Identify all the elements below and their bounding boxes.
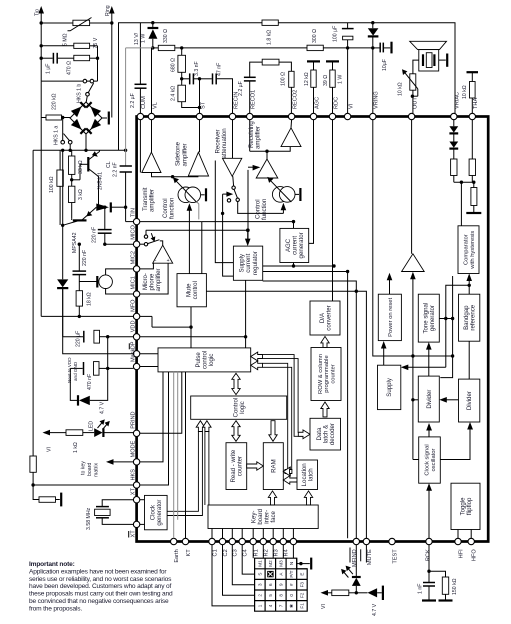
svg-text:M1: M1 xyxy=(258,560,263,567)
svg-text:MIC2: MIC2 xyxy=(130,251,136,264)
svg-text:10µF: 10µF xyxy=(382,59,388,71)
svg-text:RECO1: RECO1 xyxy=(251,90,257,109)
wire IC top rail xyxy=(119,21,456,150)
svg-text:amplifier: amplifier xyxy=(149,189,156,212)
svg-text:with hysteresis: with hysteresis xyxy=(470,231,476,270)
svg-text:2N5401: 2N5401 xyxy=(98,172,104,190)
block row column counter xyxy=(311,348,341,401)
wire Tip-Ring top xyxy=(40,21,114,117)
op-amp receiver attenuation xyxy=(214,120,241,177)
arrow readwrite-RAM xyxy=(247,462,264,470)
block divider 2 xyxy=(459,379,480,422)
svg-text:Comparator: Comparator xyxy=(464,234,470,265)
svg-text:reference: reference xyxy=(470,304,477,330)
wire attenuator1 input xyxy=(187,202,199,231)
wire tone right node xyxy=(439,276,454,378)
wire mute outputs xyxy=(152,290,366,539)
svg-text:HKS 1 a: HKS 1 a xyxy=(54,126,60,145)
switch MICO xyxy=(140,230,160,246)
capacitor 47 nF xyxy=(200,63,233,114)
wire osc feed xyxy=(411,356,419,460)
svg-text:12 kΩ: 12 kΩ xyxy=(304,72,310,86)
resistor 150 kOhm xyxy=(429,571,458,600)
svg-text:N: N xyxy=(289,562,294,565)
svg-text:generator: generator xyxy=(298,232,305,258)
wire ST node xyxy=(198,77,201,113)
wire divider node xyxy=(454,181,476,184)
wire base rail y150 xyxy=(33,81,127,456)
svg-text:Divider: Divider xyxy=(426,390,433,409)
svg-text:R4: R4 xyxy=(284,549,290,556)
wire mute row y230 xyxy=(146,229,251,274)
arrow row-DA xyxy=(321,336,329,347)
bus pulse logic down xyxy=(140,372,186,538)
svg-text:DP: DP xyxy=(130,341,136,349)
svg-text:HKS 1 b: HKS 1 b xyxy=(76,84,82,103)
svg-text:generator: generator xyxy=(156,500,163,526)
svg-text:VL: VL xyxy=(152,102,158,109)
resistor 100 kOhm xyxy=(49,150,63,225)
switch receiver mute xyxy=(223,176,284,213)
block D/A converter xyxy=(310,301,340,335)
svg-text:1 W: 1 W xyxy=(338,75,344,84)
svg-text:330 Ω: 330 Ω xyxy=(163,29,169,43)
svg-text:AGC: AGC xyxy=(314,97,320,109)
ground xyxy=(466,212,481,214)
svg-text:2.2 µF: 2.2 µF xyxy=(130,93,136,108)
LED (MFIND) xyxy=(341,545,361,595)
wire MODE to key board matrix xyxy=(81,459,134,477)
svg-text:RDC: RDC xyxy=(333,97,339,109)
bus pulse to RAM right xyxy=(251,361,292,476)
svg-text:CUM: CUM xyxy=(141,96,147,109)
svg-text:+: + xyxy=(167,258,170,264)
block bandgap reference xyxy=(459,294,480,341)
svg-text:amplifier: amplifier xyxy=(255,126,262,149)
wire MUTE stub xyxy=(365,545,367,563)
svg-text:TIN: TIN xyxy=(130,208,136,217)
svg-text:be convinced that no negative: be convinced that no negative consequenc… xyxy=(29,598,169,605)
block RAM xyxy=(263,443,283,490)
IC bottom edge pins xyxy=(171,538,478,567)
wire stageB control arrow xyxy=(246,165,260,240)
diode VRIAC 1 xyxy=(449,120,458,142)
svg-text:220 nF: 220 nF xyxy=(91,227,97,243)
svg-text:logic: logic xyxy=(208,354,215,367)
capacitor 100 uF xyxy=(333,23,354,48)
svg-text:3.58 MHz: 3.58 MHz xyxy=(86,507,92,530)
svg-text:MPSA42: MPSA42 xyxy=(72,232,78,253)
arrow control-RAM down xyxy=(269,421,277,442)
resistor 470 Ohm xyxy=(66,55,99,75)
wire keypad common terminal xyxy=(297,558,312,570)
IC top edge pins xyxy=(137,90,479,120)
svg-text:MFIND: MFIND xyxy=(352,549,358,567)
svg-text:#: # xyxy=(289,583,294,586)
svg-text:amplifier: amplifier xyxy=(155,268,162,291)
arrow osc to divider1 xyxy=(426,423,432,437)
svg-text:RAM: RAM xyxy=(270,459,277,473)
diode zener 4.7 V xyxy=(70,368,107,414)
svg-text:1 µF: 1 µF xyxy=(45,64,51,74)
svg-text:100 µF: 100 µF xyxy=(333,26,339,42)
op-amp transmit amplifier xyxy=(140,120,161,212)
wire opamp input xyxy=(410,272,416,356)
svg-text:9: 9 xyxy=(279,583,284,586)
capacitor 2.2 uF (CUM) xyxy=(130,23,146,114)
svg-text:decoder: decoder xyxy=(329,423,336,445)
svg-text:Next to VDD: Next to VDD xyxy=(67,357,72,383)
svg-text:from the proposals.: from the proposals. xyxy=(29,605,82,612)
svg-text:5 MΩ: 5 MΩ xyxy=(62,33,68,46)
svg-text:2.2 nF: 2.2 nF xyxy=(112,162,118,177)
svg-text:1.8 kΩ: 1.8 kΩ xyxy=(267,30,273,45)
svg-text:XT: XT xyxy=(130,487,136,495)
block mute control xyxy=(177,274,206,307)
svg-text:M3: M3 xyxy=(279,560,284,567)
varistor 5 MOhm 75 V xyxy=(41,18,112,49)
arrow control-readwrite double xyxy=(232,421,240,442)
svg-text:7: 7 xyxy=(279,604,284,607)
arrow keyboard-RAM xyxy=(268,491,276,505)
block supply xyxy=(378,365,401,409)
resistor (VRIAC chain) xyxy=(451,159,457,182)
svg-text:3.3 nF: 3.3 nF xyxy=(194,61,200,76)
IC left edge pins xyxy=(129,208,140,537)
svg-text:1 nF: 1 nF xyxy=(418,584,424,594)
svg-text:these proposals must carry out: these proposals must carry out their own… xyxy=(29,591,173,598)
resistor 3 kOhm xyxy=(69,186,85,219)
wire R column drops xyxy=(253,545,293,559)
svg-text:2.4 kΩ: 2.4 kΩ xyxy=(170,86,176,101)
IC outline xyxy=(137,117,489,542)
svg-text:470 nF: 470 nF xyxy=(87,374,93,390)
svg-text:RECO2: RECO2 xyxy=(292,90,298,109)
resistor 680 Ohm xyxy=(170,48,185,79)
wire MIC2 input xyxy=(140,263,154,269)
transistor 2N5401 xyxy=(72,150,104,207)
block data latch decoder xyxy=(310,418,341,450)
switch HKS 1 a xyxy=(54,118,72,151)
svg-text:F2: F2 xyxy=(300,592,305,598)
svg-text:latch: latch xyxy=(308,468,315,481)
svg-text:Earth: Earth xyxy=(174,549,180,562)
resistor 10 kOhm (THA) xyxy=(462,72,478,113)
svg-text:LED: LED xyxy=(88,421,94,431)
wire attenuator2 input arrow xyxy=(281,203,287,214)
transistor MPSA42 xyxy=(63,207,97,253)
svg-text:S: S xyxy=(258,573,263,576)
block comparator with hysteresis xyxy=(458,182,479,273)
svg-text:13 V/: 13 V/ xyxy=(134,32,140,45)
wire AGC pin to block xyxy=(294,120,314,266)
arrow into supply right xyxy=(401,365,446,371)
svg-text:MODE: MODE xyxy=(130,440,136,457)
svg-text:Power on reset: Power on reset xyxy=(388,298,394,337)
svg-text:470 Ω: 470 Ω xyxy=(66,61,72,75)
potentiometer 10 kOhm xyxy=(397,69,418,113)
arrow divider1 to tone xyxy=(426,342,432,376)
svg-text:matrix: matrix xyxy=(94,462,100,477)
arrow pulse-control double xyxy=(232,373,240,394)
svg-text:Ring: Ring xyxy=(105,5,111,16)
wire transmit-sidetone base xyxy=(152,173,199,179)
capacitor 470 nF xyxy=(67,337,133,390)
svg-text:C3: C3 xyxy=(233,549,239,556)
keypad matrix xyxy=(255,558,308,611)
svg-text:1 W: 1 W xyxy=(140,34,146,43)
svg-text:✱: ✱ xyxy=(289,604,294,608)
svg-text:1 kΩ: 1 kΩ xyxy=(73,442,79,453)
svg-text:Supply: Supply xyxy=(386,377,393,397)
block AGC current generator xyxy=(280,228,309,262)
svg-text:PRIND: PRIND xyxy=(130,411,136,428)
resistor 300 Ohm xyxy=(307,29,323,51)
svg-text:Important note:: Important note: xyxy=(29,561,75,568)
svg-text:4: 4 xyxy=(268,604,273,607)
svg-text:100 Ω: 100 Ω xyxy=(281,72,287,86)
block pulse control logic xyxy=(158,348,251,372)
resistor top-left (unlabelled) xyxy=(41,43,97,81)
svg-text:oscillator: oscillator xyxy=(431,448,437,471)
svg-text:E: E xyxy=(300,573,305,576)
svg-text:150 kΩ: 150 kΩ xyxy=(452,578,458,595)
block keyboard interface xyxy=(208,505,318,529)
svg-text:counter: counter xyxy=(237,456,244,476)
svg-text:Divider: Divider xyxy=(466,391,473,410)
svg-text:220 kΩ: 220 kΩ xyxy=(51,93,57,110)
svg-text:0: 0 xyxy=(289,594,294,597)
resistor 220 kOhm xyxy=(41,93,70,120)
svg-text:2.2 µF: 2.2 µF xyxy=(238,81,244,96)
diode VRIAC 2 xyxy=(449,142,458,160)
svg-text:function: function xyxy=(261,199,268,220)
resistor 1.8 kOhm xyxy=(262,20,278,45)
arrow RCK to osc xyxy=(426,483,432,538)
arrow datalatch-row xyxy=(321,402,329,417)
op-amp receiving amplifier stage 1 xyxy=(248,120,290,178)
wire osc to divider2 xyxy=(440,422,473,460)
wire VI internal rail xyxy=(347,272,349,539)
wire VL to pin xyxy=(151,48,153,113)
svg-text:function: function xyxy=(168,198,175,219)
svg-text:F3: F3 xyxy=(300,582,305,588)
svg-text:counter: counter xyxy=(330,364,336,383)
svg-text:100 kΩ: 100 kΩ xyxy=(49,176,55,193)
resistor (to ground) xyxy=(471,182,477,212)
attenuator control function 1 xyxy=(162,177,206,219)
resistor 1 kOhm (VI bottom) xyxy=(321,590,357,609)
svg-text:10 kΩ: 10 kΩ xyxy=(397,82,403,96)
svg-text:series use or reliability, and: series use or reliability, and no worst … xyxy=(29,576,172,583)
diode MPSA42 collector xyxy=(96,202,127,212)
svg-text:VI: VI xyxy=(321,604,327,609)
capacitor CL 2.2 nF xyxy=(106,150,133,221)
svg-text:generator: generator xyxy=(429,305,436,331)
svg-text:3: 3 xyxy=(258,583,263,586)
diode (DP rail) xyxy=(57,279,133,353)
block divider 1 xyxy=(418,376,439,422)
svg-text:8: 8 xyxy=(279,594,284,597)
op-amp microphone amplifier xyxy=(142,241,173,292)
svg-text:face: face xyxy=(270,510,277,522)
attenuator control function 2 xyxy=(254,177,300,220)
svg-text:regulator: regulator xyxy=(252,251,259,275)
wire keyboard interface columns xyxy=(212,529,293,539)
svg-text:VRING: VRING xyxy=(374,91,380,109)
bus pulse to data latch xyxy=(251,352,310,439)
svg-text:board: board xyxy=(87,463,93,476)
svg-text:ST: ST xyxy=(200,101,206,109)
block location latch xyxy=(297,460,318,490)
capacitor 2.2 uF (RECO1) xyxy=(238,62,262,113)
svg-text:to key: to key xyxy=(81,461,87,475)
arrow keyboard-location xyxy=(304,491,312,505)
capacitor 10 uF xyxy=(373,42,392,71)
arrows into control logic from below xyxy=(167,421,211,516)
svg-text:flipflop: flipflop xyxy=(466,497,473,515)
svg-text:and GND: and GND xyxy=(73,361,78,381)
svg-text:1: 1 xyxy=(258,604,263,607)
svg-text:Application examples have not: Application examples have not been exami… xyxy=(29,568,167,575)
svg-text:HFI: HFI xyxy=(458,549,464,558)
svg-text:amplifier: amplifier xyxy=(181,143,188,166)
svg-text:R3: R3 xyxy=(274,549,280,556)
svg-text:P/T: P/T xyxy=(289,570,294,577)
svg-text:39 Ω: 39 Ω xyxy=(323,75,329,86)
svg-text:ROW & column: ROW & column xyxy=(318,354,324,394)
svg-text:220 nF: 220 nF xyxy=(82,250,88,266)
resistor 330 Ohm xyxy=(151,29,182,51)
note text xyxy=(29,561,173,612)
svg-text:VDD: VDD xyxy=(130,320,136,332)
wire HKS xyxy=(33,484,133,486)
svg-text:MUTE: MUTE xyxy=(367,549,373,565)
wire C column drops xyxy=(212,545,255,606)
wire MFO VDD DP rows inside xyxy=(140,316,246,366)
block control logic xyxy=(191,396,287,419)
svg-text:3 kΩ: 3 kΩ xyxy=(78,189,84,200)
arrow power-on-reset out xyxy=(387,273,393,294)
wire XT stubs xyxy=(140,500,145,525)
wire regulator left inputs xyxy=(215,161,233,277)
svg-text:10 kΩ: 10 kΩ xyxy=(462,85,468,99)
wire mid rail y47 xyxy=(126,46,375,150)
wire MFO-mute link xyxy=(151,316,153,327)
svg-text:XT: XT xyxy=(130,530,136,538)
svg-text:Clock signal: Clock signal xyxy=(424,444,430,475)
arrow bandgap-comparator xyxy=(446,274,472,368)
svg-text:M2: M2 xyxy=(268,560,273,567)
capacitor 1 uF xyxy=(41,53,74,74)
wire bottom of line network xyxy=(41,80,97,82)
diode VRING xyxy=(368,23,379,114)
svg-text:Tip: Tip xyxy=(34,9,40,16)
svg-text:5: 5 xyxy=(268,594,273,597)
wire toggle to HFI HFO xyxy=(458,530,471,539)
svg-text:logic: logic xyxy=(239,401,246,414)
resistor 12 kOhm xyxy=(304,61,320,113)
svg-text:TEST: TEST xyxy=(392,549,398,564)
svg-text:33 kΩ: 33 kΩ xyxy=(78,160,84,174)
svg-text:VI: VI xyxy=(348,103,354,109)
arrow location-RAM xyxy=(283,467,297,484)
svg-text:CL: CL xyxy=(106,161,112,168)
wire RDC to DA xyxy=(332,120,334,301)
block read-write counter xyxy=(226,443,247,490)
svg-text:have been developed. Customers: have been developed. Customers who adapt… xyxy=(29,583,172,590)
capacitor 3.3 nF xyxy=(182,61,200,84)
svg-text:converter: converter xyxy=(325,305,332,330)
resistor 2.4 kOhm xyxy=(170,77,199,107)
wire regulator right outputs xyxy=(244,264,356,338)
svg-text:R2: R2 xyxy=(264,549,270,556)
capacitor 1 nF (RCK) xyxy=(418,545,437,601)
resistor 100 Ohm (horizontal) xyxy=(262,59,291,71)
block clock signal oscillator xyxy=(419,437,441,483)
resistor with terminal (HKS bias) xyxy=(33,485,61,506)
svg-text:47 nF: 47 nF xyxy=(217,63,223,76)
LED (PRIND) with resistor 1 kOhm xyxy=(43,419,134,453)
arrow supply to power-on-reset xyxy=(381,341,387,365)
wire MFO xyxy=(41,315,133,318)
crystal 3.58 MHz xyxy=(86,500,133,530)
svg-text:4.7 V: 4.7 V xyxy=(372,603,378,616)
svg-text:6: 6 xyxy=(268,583,273,586)
svg-text:4.7 V: 4.7 V xyxy=(99,401,105,414)
svg-text:R1: R1 xyxy=(254,549,260,556)
microphone xyxy=(79,269,133,294)
svg-text:MFO: MFO xyxy=(130,299,136,312)
op-amp output buffer xyxy=(402,120,425,272)
svg-text:220 µF: 220 µF xyxy=(76,331,82,347)
resistor 18 kOhm xyxy=(76,291,93,317)
svg-text:MIC1: MIC1 xyxy=(130,276,136,289)
op-amp receiving amplifier stage 2 xyxy=(281,120,301,147)
block power on reset xyxy=(378,294,401,340)
switch HKS 1 b xyxy=(76,79,93,103)
capacitor 220 uF xyxy=(63,288,134,347)
earpiece speaker xyxy=(410,41,448,74)
svg-text:programmable: programmable xyxy=(324,355,330,392)
svg-text:300 Ω: 300 Ω xyxy=(312,29,318,43)
svg-text:VI: VI xyxy=(47,447,53,452)
wire TIN row xyxy=(140,220,295,274)
svg-text:F1: F1 xyxy=(300,603,305,609)
svg-text:MICO: MICO xyxy=(130,224,136,239)
node Tip xyxy=(34,6,44,23)
wire MIC1 input xyxy=(140,263,168,294)
arrow divider2 to divider1 xyxy=(439,397,458,403)
wire VI to pin xyxy=(347,48,349,113)
wire y356 xyxy=(373,120,455,358)
svg-text:HFO: HFO xyxy=(472,549,478,561)
wire left rail to diode xyxy=(61,150,64,279)
node Ring xyxy=(105,5,115,23)
svg-text:Mask: Mask xyxy=(130,348,136,362)
svg-text:HKS: HKS xyxy=(130,469,136,481)
resistor (THA chain) xyxy=(469,120,475,183)
resistor 39 Ohm 1 W xyxy=(323,61,344,113)
svg-text:680 Ω: 680 Ω xyxy=(170,58,176,72)
op-amp sidetone amplifier xyxy=(175,120,209,176)
svg-text:2: 2 xyxy=(258,594,263,597)
svg-text:18 kΩ: 18 kΩ xyxy=(87,292,93,306)
svg-text:C4: C4 xyxy=(243,549,249,556)
diode zener 4.7 V (bottom) xyxy=(356,586,383,616)
svg-text:control: control xyxy=(192,281,199,299)
capacitor 220 nF (MIC2) xyxy=(73,243,89,291)
